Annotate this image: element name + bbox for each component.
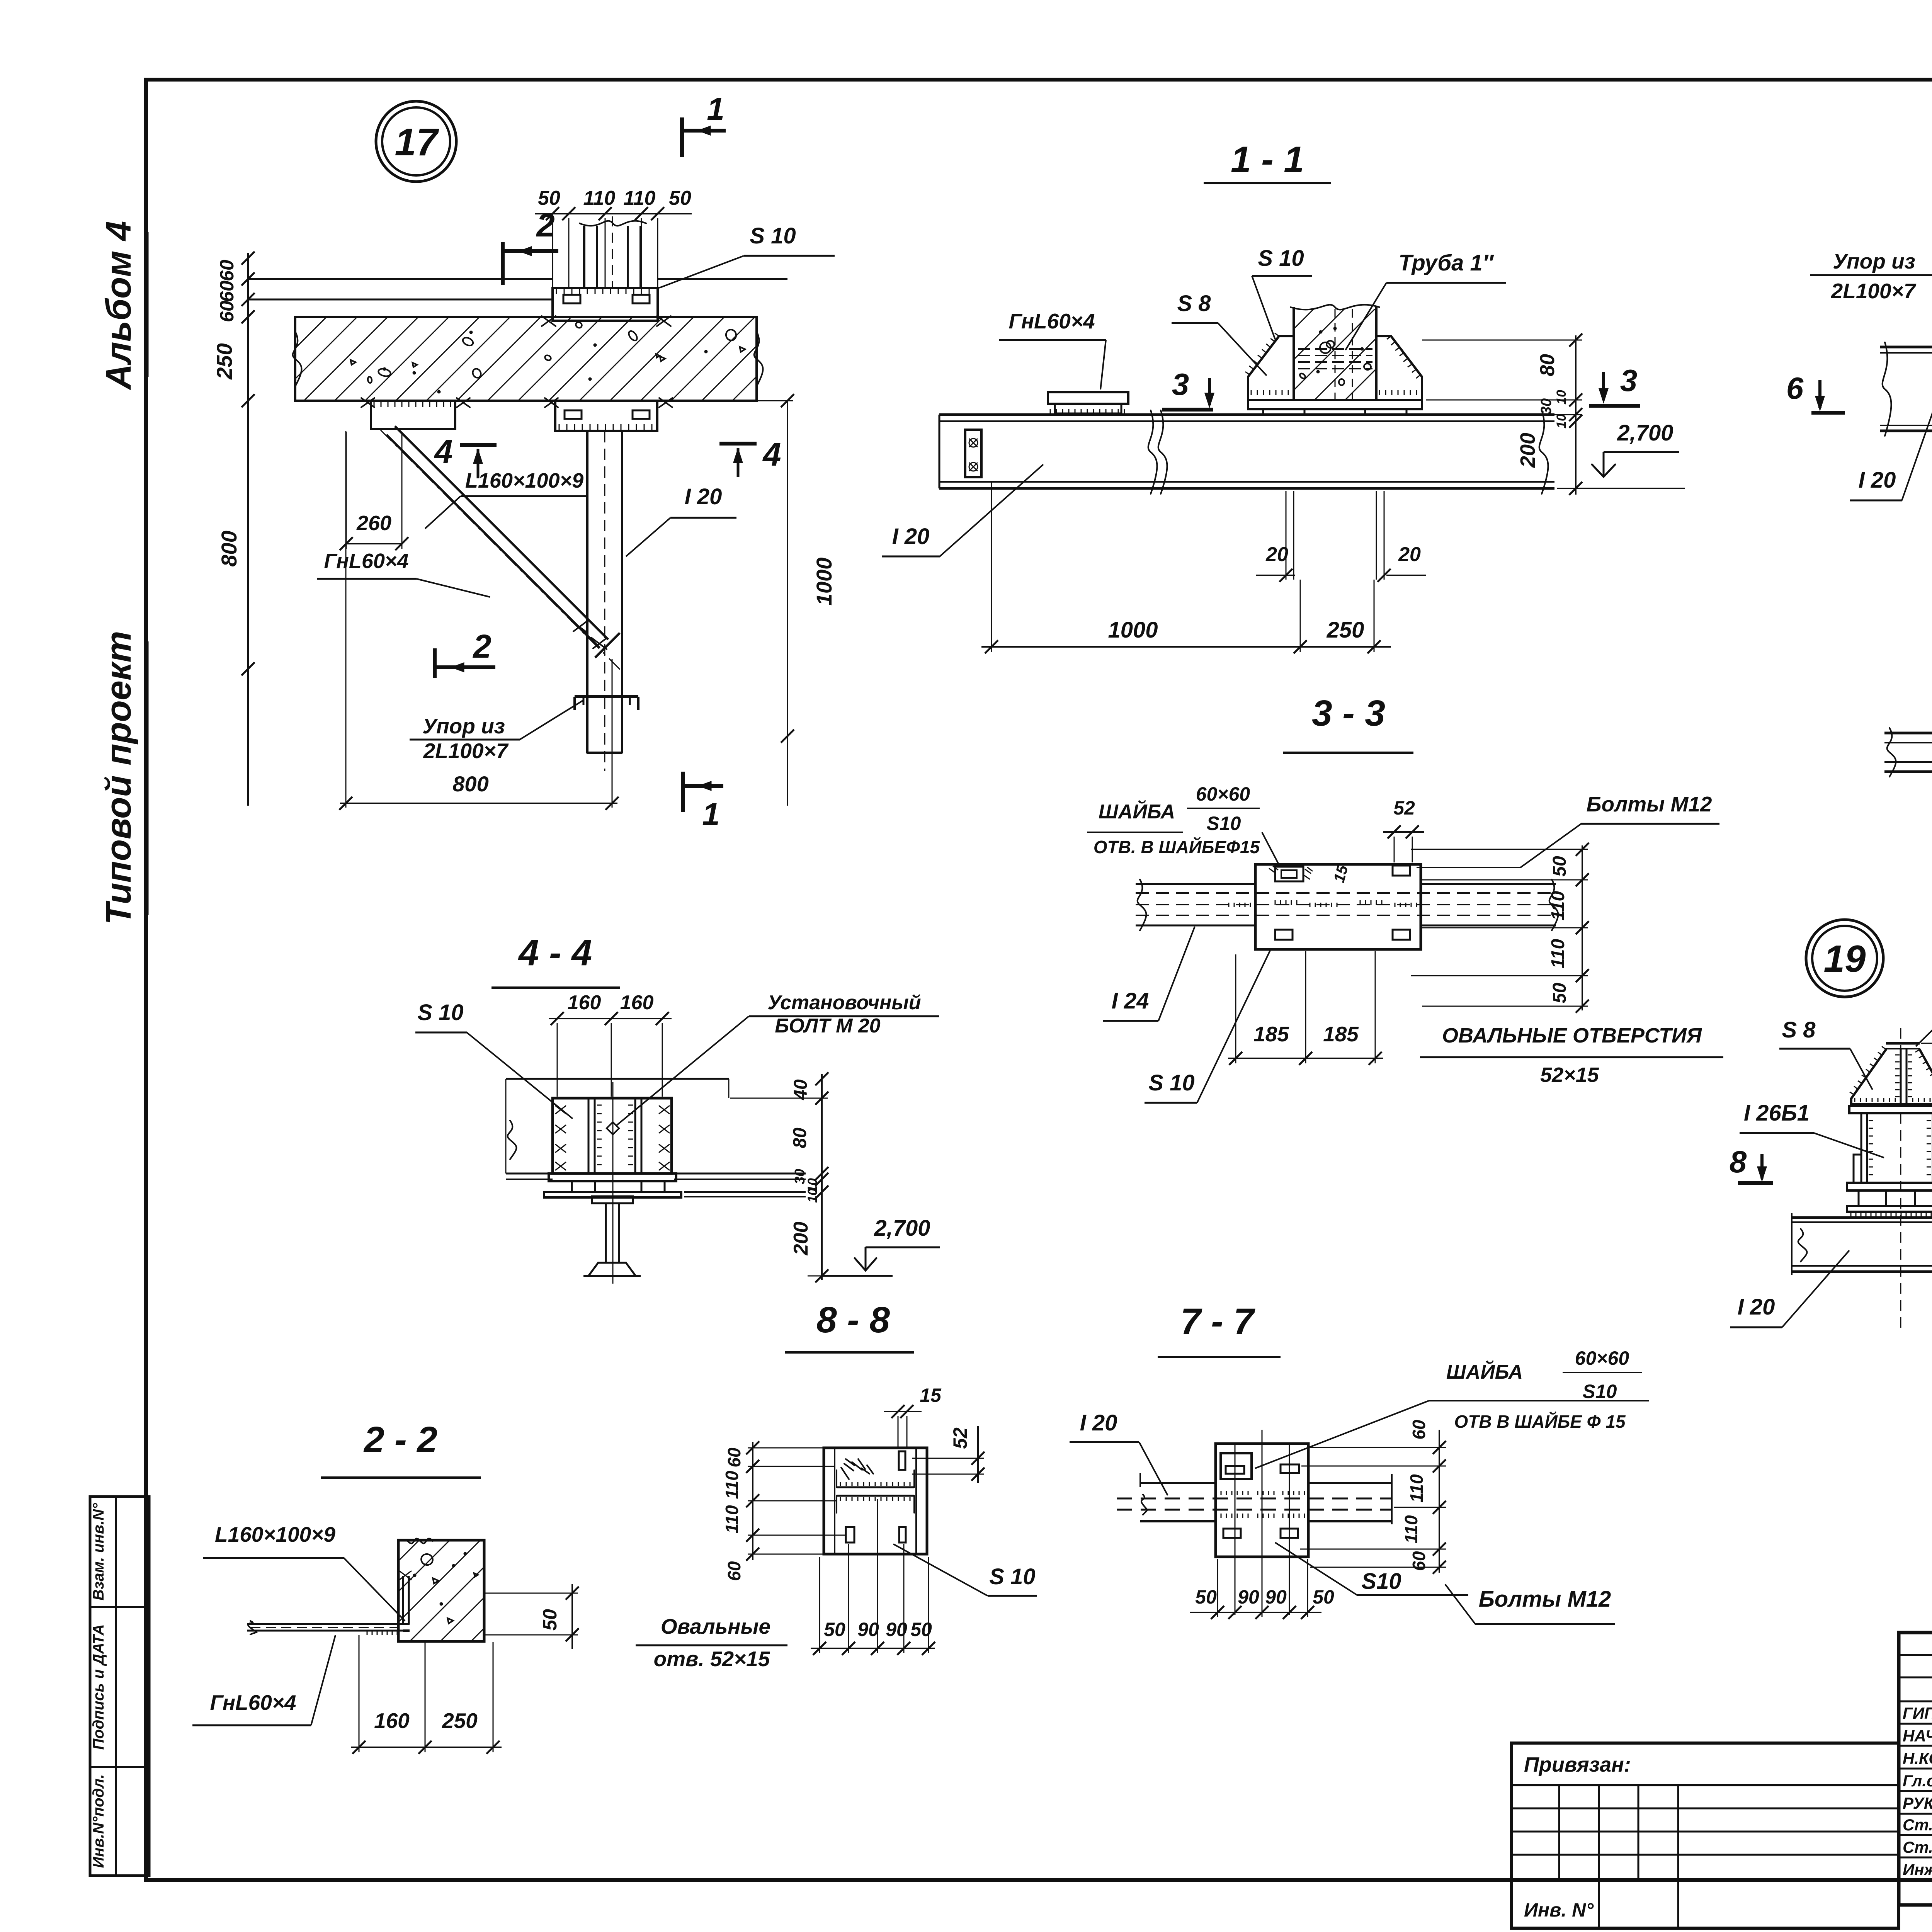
stamp text Инв.№подл. bbox=[90, 1774, 107, 1868]
node17 top extension lines bbox=[553, 218, 658, 287]
8-8 dim 15 bbox=[884, 1384, 942, 1447]
svg-text:Овальные: Овальные bbox=[661, 1614, 770, 1638]
8-8 left dim stack bbox=[746, 1441, 846, 1561]
label I26Б1 bbox=[1740, 1100, 1884, 1158]
svg-text:8: 8 bbox=[1730, 1145, 1747, 1179]
svg-text:1: 1 bbox=[702, 797, 720, 832]
node17 bottom dim 800 bbox=[339, 431, 619, 810]
section flag 4 right bbox=[719, 436, 781, 477]
3-3 beam I24 hidden bbox=[1136, 879, 1558, 930]
svg-text:S 10: S 10 bbox=[1148, 1070, 1194, 1095]
svg-text:Взам. инв.N°: Взам. инв.N° bbox=[90, 1503, 107, 1600]
2-2 strip bbox=[247, 1621, 400, 1635]
label Упор из 2L100х7 node17 bbox=[410, 700, 583, 763]
svg-text:60: 60 bbox=[216, 281, 238, 302]
svg-text:90: 90 bbox=[857, 1619, 879, 1640]
1-1 beam I20 bbox=[939, 410, 1554, 494]
privyazan table lines bbox=[1512, 1785, 1899, 1928]
label Труба 1" bbox=[1345, 250, 1506, 350]
svg-text:2: 2 bbox=[536, 207, 554, 244]
6-6 beam I20 bbox=[1884, 728, 1932, 777]
8-8 plate bbox=[824, 1448, 927, 1554]
3-3 weld marks on beam bbox=[1229, 900, 1417, 907]
svg-text:I 24: I 24 bbox=[1112, 988, 1149, 1014]
svg-text:800: 800 bbox=[217, 531, 241, 566]
4-4 dims 160 160 bbox=[549, 992, 672, 1097]
svg-text:ГнL60×4: ГнL60×4 bbox=[1009, 309, 1095, 333]
svg-text:20: 20 bbox=[1265, 543, 1288, 566]
svg-text:110: 110 bbox=[1406, 1474, 1427, 1503]
svg-text:S10: S10 bbox=[1583, 1381, 1617, 1402]
label I20 1-1 bbox=[882, 464, 1043, 556]
svg-text:160: 160 bbox=[374, 1709, 410, 1733]
section flag 1 top bbox=[682, 92, 726, 157]
1-1 left gusset bbox=[1245, 333, 1294, 400]
svg-text:4: 4 bbox=[434, 434, 452, 470]
svg-text:17: 17 bbox=[395, 121, 439, 164]
svg-text:S 10: S 10 bbox=[750, 223, 796, 248]
svg-text:60: 60 bbox=[216, 260, 238, 281]
svg-text:110: 110 bbox=[722, 1471, 742, 1499]
svg-text:160: 160 bbox=[620, 992, 654, 1014]
node17 concrete slab bbox=[293, 317, 763, 401]
1-1 rebar dashes bbox=[1298, 349, 1372, 369]
label овальные отв 8-8 bbox=[636, 1614, 787, 1671]
svg-text:60: 60 bbox=[1409, 1420, 1429, 1440]
svg-text:80: 80 bbox=[790, 1128, 810, 1148]
svg-text:I 20: I 20 bbox=[1738, 1294, 1775, 1320]
svg-text:2L100×7: 2L100×7 bbox=[423, 739, 509, 763]
2-2 angle bbox=[277, 1571, 411, 1631]
personnel roles and names bbox=[1903, 1704, 1932, 1879]
node19 gusset bbox=[1850, 1046, 1932, 1104]
2-2 dims 160 250 bbox=[351, 1635, 502, 1754]
1-1 dim 20 right bbox=[1376, 491, 1426, 582]
label установочный болт М20 bbox=[617, 992, 939, 1125]
section flag 3 left bbox=[1162, 367, 1214, 410]
label S8 1-1 bbox=[1172, 291, 1267, 376]
svg-text:52: 52 bbox=[949, 1427, 971, 1449]
2-2 dim 50 bbox=[485, 1584, 579, 1649]
svg-text:ОТВ. В ШАЙБЕФ15: ОТВ. В ШАЙБЕФ15 bbox=[1094, 837, 1260, 857]
svg-text:160: 160 bbox=[568, 992, 601, 1014]
privyazan label bbox=[1524, 1753, 1631, 1776]
label S10 4-4 bbox=[415, 1000, 573, 1119]
node17 lower plate bbox=[555, 401, 657, 431]
node17 column below slab bbox=[587, 431, 622, 771]
4-4 right dim stack bbox=[730, 1072, 828, 1282]
4-4 box bbox=[553, 1098, 672, 1173]
8-8 left dim labels bbox=[722, 1447, 744, 1581]
node19 column I26 bbox=[1861, 1028, 1932, 1331]
svg-text:50: 50 bbox=[669, 187, 691, 209]
svg-text:Альбом 4: Альбом 4 bbox=[99, 221, 138, 390]
section 3-3 title bbox=[1283, 693, 1413, 753]
section flag 1 bottom bbox=[683, 772, 723, 832]
node17 lower plate crosses bbox=[545, 398, 672, 407]
svg-text:1000: 1000 bbox=[812, 558, 836, 606]
svg-text:250: 250 bbox=[442, 1709, 478, 1733]
svg-text:20: 20 bbox=[1398, 543, 1421, 566]
4-4 level 2.700 bbox=[822, 1216, 940, 1276]
label шайба 3-3 bbox=[1087, 783, 1279, 866]
label болты М12 7-7 bbox=[1445, 1584, 1615, 1624]
section flag 2 bottom bbox=[435, 628, 495, 678]
svg-text:I 20: I 20 bbox=[1080, 1410, 1117, 1435]
svg-text:4 - 4: 4 - 4 bbox=[518, 932, 592, 973]
svg-text:I 20: I 20 bbox=[685, 484, 722, 509]
label I20 7-7 bbox=[1070, 1410, 1168, 1495]
node18 beam I20 bbox=[1880, 342, 1932, 436]
node19 base plate bbox=[1849, 1106, 1932, 1113]
1-1 bottom dims bbox=[981, 481, 1391, 653]
label I20 node19 bottom bbox=[1730, 1250, 1849, 1327]
svg-text:80: 80 bbox=[1536, 354, 1559, 376]
svg-text:Привязан:: Привязан: bbox=[1524, 1753, 1631, 1776]
svg-text:4: 4 bbox=[762, 436, 781, 473]
svg-text:отв. 52×15: отв. 52×15 bbox=[654, 1647, 770, 1671]
7-7 slots bottom bbox=[1223, 1529, 1298, 1538]
svg-text:РУК. ГР.: РУК. ГР. bbox=[1903, 1794, 1932, 1812]
1-1 bearing pads bbox=[1263, 409, 1406, 415]
1-1 level 2.700 bbox=[1576, 420, 1685, 488]
svg-text:НАЧ.ОТД.: НАЧ.ОТД. bbox=[1903, 1727, 1932, 1745]
section 4-4 title bbox=[492, 932, 620, 988]
node19 splice plates bbox=[1854, 1155, 1932, 1183]
3-3 dims 185 185 bbox=[1228, 951, 1383, 1065]
label ГнL60х4 1-1 bbox=[999, 309, 1106, 389]
svg-text:ГнL60×4: ГнL60×4 bbox=[210, 1690, 296, 1714]
svg-text:3: 3 bbox=[1620, 363, 1638, 398]
3-3 dim 52 bbox=[1383, 797, 1424, 862]
section flag 8 left bbox=[1730, 1145, 1773, 1183]
label овальные отверстия 3-3 bbox=[1420, 1024, 1723, 1087]
svg-text:ГИП: ГИП bbox=[1903, 1704, 1932, 1722]
node17 left dim labels bbox=[212, 260, 241, 567]
3-3 slot top right bbox=[1393, 866, 1410, 876]
svg-text:60: 60 bbox=[216, 301, 238, 322]
svg-text:10: 10 bbox=[805, 1188, 820, 1203]
label Упор из 2L100х7 node18 bbox=[1810, 249, 1932, 362]
svg-text:S 8: S 8 bbox=[1177, 291, 1211, 316]
svg-text:Установочный: Установочный bbox=[767, 992, 921, 1014]
4-4 bottom plates bbox=[544, 1173, 681, 1197]
label ГнL60х4 2-2 bbox=[192, 1635, 335, 1725]
svg-text:52: 52 bbox=[1393, 797, 1415, 819]
1-1 strip on beam bbox=[1048, 392, 1128, 413]
svg-text:250: 250 bbox=[1327, 617, 1364, 643]
8-8 dim 52 bbox=[912, 1426, 985, 1483]
section flag 4 left bbox=[434, 434, 497, 478]
svg-text:50: 50 bbox=[824, 1619, 845, 1640]
4-4 right dim labels bbox=[790, 1079, 820, 1255]
svg-text:Упор из: Упор из bbox=[422, 714, 505, 738]
svg-text:52×15: 52×15 bbox=[1540, 1063, 1599, 1087]
4-4 strips right bbox=[674, 1173, 806, 1197]
svg-text:250: 250 bbox=[212, 343, 236, 379]
svg-text:50: 50 bbox=[1549, 983, 1570, 1003]
svg-text:Ст.инж.: Ст.инж. bbox=[1903, 1816, 1932, 1834]
node17 plate weld crosses bbox=[542, 316, 671, 326]
svg-text:110: 110 bbox=[1548, 891, 1568, 920]
4-4 weld crosses bbox=[556, 1106, 669, 1170]
8-8 weld scribbles bbox=[841, 1459, 873, 1479]
label 1000 node17 bbox=[812, 558, 836, 606]
label болты М12 3-3 bbox=[1417, 792, 1719, 867]
label S10 7-7 bbox=[1275, 1543, 1468, 1595]
svg-text:S10: S10 bbox=[1361, 1569, 1401, 1594]
label шайба 7-7 bbox=[1255, 1347, 1649, 1468]
node 17 circle bbox=[376, 101, 456, 182]
node17 dim 260 bbox=[340, 432, 408, 550]
inv no label bbox=[1524, 1899, 1594, 1921]
svg-text:2,700: 2,700 bbox=[874, 1216, 930, 1241]
svg-text:110: 110 bbox=[1548, 939, 1568, 968]
node19 beam I20 bbox=[1792, 1213, 1932, 1275]
node17 right dim line bbox=[757, 394, 794, 806]
svg-text:1: 1 bbox=[707, 92, 724, 127]
3-3 slot width 15 label bbox=[1330, 863, 1351, 884]
svg-text:S 10: S 10 bbox=[417, 1000, 463, 1025]
svg-text:Подпись и ДАТА: Подпись и ДАТА bbox=[90, 1624, 107, 1750]
svg-text:200: 200 bbox=[790, 1222, 812, 1256]
label S8 node19 bbox=[1779, 1017, 1872, 1090]
svg-text:ОТВ В ШАЙБЕ Ф 15: ОТВ В ШАЙБЕ Ф 15 bbox=[1454, 1412, 1626, 1432]
8-8 slots bbox=[846, 1451, 906, 1543]
node17 brace anchor plate bbox=[361, 398, 470, 429]
svg-text:S 10: S 10 bbox=[989, 1564, 1035, 1589]
svg-text:110: 110 bbox=[1401, 1515, 1421, 1544]
svg-text:I 20: I 20 bbox=[1859, 468, 1896, 493]
2-2 concrete column bbox=[398, 1539, 484, 1641]
1-1 beam end plate bbox=[965, 430, 981, 477]
section flag 6 left bbox=[1786, 371, 1845, 413]
svg-text:60: 60 bbox=[724, 1447, 744, 1468]
svg-text:110: 110 bbox=[722, 1505, 742, 1534]
svg-text:Труба 1″: Труба 1″ bbox=[1398, 250, 1494, 276]
svg-text:Болты М12: Болты М12 bbox=[1587, 792, 1712, 816]
3-3 right dim stack bbox=[1411, 843, 1589, 1013]
svg-text:19: 19 bbox=[1823, 937, 1866, 980]
svg-text:Инв. N°: Инв. N° bbox=[1524, 1899, 1594, 1921]
section 1-1 title bbox=[1204, 139, 1331, 183]
label I24 bbox=[1103, 927, 1195, 1021]
node17 diagonal brace bbox=[381, 426, 621, 671]
section 2-2 title bbox=[321, 1419, 481, 1478]
section flag 3 right bbox=[1589, 363, 1640, 406]
svg-text:Болты М12: Болты М12 bbox=[1479, 1587, 1611, 1612]
node17 left dim line bbox=[241, 252, 255, 806]
svg-text:110: 110 bbox=[583, 187, 616, 209]
svg-text:40: 40 bbox=[791, 1079, 811, 1100]
svg-text:10: 10 bbox=[1554, 390, 1569, 405]
label I20 node19 top bbox=[1916, 975, 1932, 1046]
node17 anchor plate top bbox=[553, 288, 658, 321]
3-3 right dim labels bbox=[1548, 856, 1570, 1003]
node17 column above plate bbox=[580, 216, 646, 288]
label I20 node17 bbox=[626, 484, 736, 556]
svg-text:Ст. инж: Ст. инж bbox=[1903, 1838, 1932, 1856]
svg-text:6: 6 bbox=[1786, 371, 1804, 405]
svg-text:I 20: I 20 bbox=[892, 524, 930, 549]
label S10 node17 bbox=[659, 223, 835, 288]
label S10 8-8 bbox=[893, 1544, 1037, 1596]
4-4 setting bolt bbox=[607, 1122, 619, 1159]
node19 I-beam top bbox=[1886, 1043, 1920, 1104]
8-8 I-section web bbox=[837, 1470, 914, 1513]
1-1 right dim stack bbox=[1414, 333, 1584, 495]
8-8 bottom dims bbox=[811, 1499, 935, 1655]
svg-text:50: 50 bbox=[539, 1609, 561, 1631]
label L160х100х9 2-2 bbox=[203, 1522, 405, 1621]
margin text Типовой проект bbox=[99, 631, 148, 925]
1-1 right dim labels bbox=[1516, 354, 1569, 468]
svg-text:I 26Б1: I 26Б1 bbox=[1744, 1100, 1810, 1126]
svg-text:200: 200 bbox=[1516, 433, 1539, 468]
4-4 top line left bbox=[506, 1079, 729, 1179]
3-3 washer top left bbox=[1269, 866, 1312, 881]
1-1 dim 20 left bbox=[1256, 491, 1295, 582]
svg-text:50: 50 bbox=[1313, 1586, 1334, 1608]
svg-text:3: 3 bbox=[1172, 367, 1189, 401]
7-7 bottom dims bbox=[1190, 1559, 1334, 1619]
privyazan table box bbox=[1512, 1743, 1899, 1928]
svg-text:60×60: 60×60 bbox=[1575, 1347, 1629, 1369]
node17 strip lines bbox=[248, 279, 787, 299]
svg-text:60: 60 bbox=[1409, 1551, 1429, 1571]
svg-text:2: 2 bbox=[472, 628, 491, 665]
svg-text:1000: 1000 bbox=[1108, 617, 1158, 643]
svg-text:3 - 3: 3 - 3 bbox=[1312, 693, 1385, 734]
section 7-7 title bbox=[1158, 1301, 1281, 1357]
stamp text Взам. инв.№ bbox=[90, 1503, 107, 1600]
7-7 washer top left bbox=[1221, 1453, 1252, 1479]
1-1 right gusset bbox=[1376, 336, 1422, 400]
svg-text:185: 185 bbox=[1323, 1022, 1359, 1046]
svg-text:185: 185 bbox=[1253, 1022, 1289, 1046]
7-7 slot top right bbox=[1281, 1464, 1299, 1473]
svg-text:Инв.N°подл.: Инв.N°подл. bbox=[90, 1774, 107, 1868]
svg-text:800: 800 bbox=[452, 772, 488, 796]
svg-text:30: 30 bbox=[1538, 398, 1554, 415]
svg-text:15: 15 bbox=[920, 1384, 942, 1406]
7-7 right dim labels bbox=[1401, 1420, 1429, 1571]
svg-text:ОВАЛЬНЫЕ ОТВЕРСТИЯ: ОВАЛЬНЫЕ ОТВЕРСТИЯ bbox=[1442, 1024, 1702, 1047]
node17 top dim line bbox=[535, 207, 692, 220]
section flag 2 top bbox=[503, 207, 558, 285]
1-1 concrete column bbox=[1291, 305, 1379, 400]
svg-text:50: 50 bbox=[538, 187, 560, 209]
svg-text:10: 10 bbox=[1554, 414, 1569, 429]
node 19 circle bbox=[1806, 920, 1883, 997]
svg-text:S10: S10 bbox=[1207, 813, 1241, 834]
svg-text:Н.КОНТР.: Н.КОНТР. bbox=[1903, 1749, 1932, 1767]
svg-text:S 8: S 8 bbox=[1782, 1017, 1816, 1043]
svg-text:2,700: 2,700 bbox=[1617, 420, 1673, 446]
1-1 base plate bbox=[1248, 400, 1422, 409]
node17 top dim labels bbox=[538, 187, 691, 209]
svg-text:50: 50 bbox=[1195, 1586, 1217, 1608]
margin text Альбом 4 bbox=[99, 221, 148, 390]
svg-text:ГнL60×4: ГнL60×4 bbox=[324, 549, 408, 573]
label Гн L60х4 node17 bbox=[317, 549, 490, 597]
svg-text:Гл.спец.: Гл.спец. bbox=[1903, 1772, 1932, 1790]
stamp text Подпись и ДАТА bbox=[90, 1624, 107, 1750]
svg-text:Инженер: Инженер bbox=[1903, 1861, 1932, 1879]
4-4 rail bbox=[583, 1082, 641, 1284]
label I20 node18 bbox=[1850, 401, 1932, 500]
svg-text:50: 50 bbox=[1549, 856, 1570, 877]
svg-text:60: 60 bbox=[724, 1561, 744, 1581]
svg-text:Типовой проект: Типовой проект bbox=[99, 631, 138, 925]
node17 upor bracket bbox=[575, 697, 638, 710]
svg-text:90: 90 bbox=[1238, 1586, 1259, 1608]
svg-text:7 - 7: 7 - 7 bbox=[1180, 1301, 1255, 1342]
3-3 plate bbox=[1255, 864, 1421, 949]
7-7 plate bbox=[1216, 1430, 1308, 1617]
svg-text:ШАЙБА: ШАЙБА bbox=[1099, 800, 1175, 823]
3-3 slots bottom bbox=[1275, 930, 1410, 940]
svg-text:БОЛТ М 20: БОЛТ М 20 bbox=[775, 1015, 881, 1037]
svg-text:260: 260 bbox=[356, 512, 391, 535]
svg-text:L160×100×9: L160×100×9 bbox=[215, 1522, 335, 1546]
svg-text:90: 90 bbox=[1265, 1586, 1287, 1608]
section 8-8 title bbox=[785, 1299, 914, 1352]
svg-text:2 - 2: 2 - 2 bbox=[363, 1419, 437, 1460]
personnel table box bbox=[1899, 1633, 1932, 1905]
svg-text:2L100×7: 2L100×7 bbox=[1831, 279, 1917, 303]
7-7 beam I20 bbox=[1117, 1473, 1392, 1524]
svg-text:8 - 8: 8 - 8 bbox=[816, 1299, 890, 1340]
svg-text:S 10: S 10 bbox=[1258, 246, 1304, 271]
label L160х100х9 bbox=[425, 469, 588, 529]
svg-text:ШАЙБА: ШАЙБА bbox=[1446, 1360, 1523, 1383]
svg-text:L160×100×9: L160×100×9 bbox=[465, 469, 583, 492]
svg-text:1 - 1: 1 - 1 bbox=[1231, 139, 1304, 180]
label S10 1-1 bbox=[1252, 246, 1312, 339]
node19 bearing stack bbox=[1847, 1183, 1932, 1217]
stamp column box bbox=[90, 1497, 149, 1876]
svg-text:110: 110 bbox=[624, 187, 656, 209]
node19 right dims bbox=[1921, 1037, 1932, 1284]
label S10 3-3 bbox=[1145, 951, 1270, 1103]
svg-text:60×60: 60×60 bbox=[1196, 783, 1250, 805]
7-7 right dim stack bbox=[1300, 1430, 1446, 1574]
svg-text:Упор из: Упор из bbox=[1833, 249, 1915, 273]
